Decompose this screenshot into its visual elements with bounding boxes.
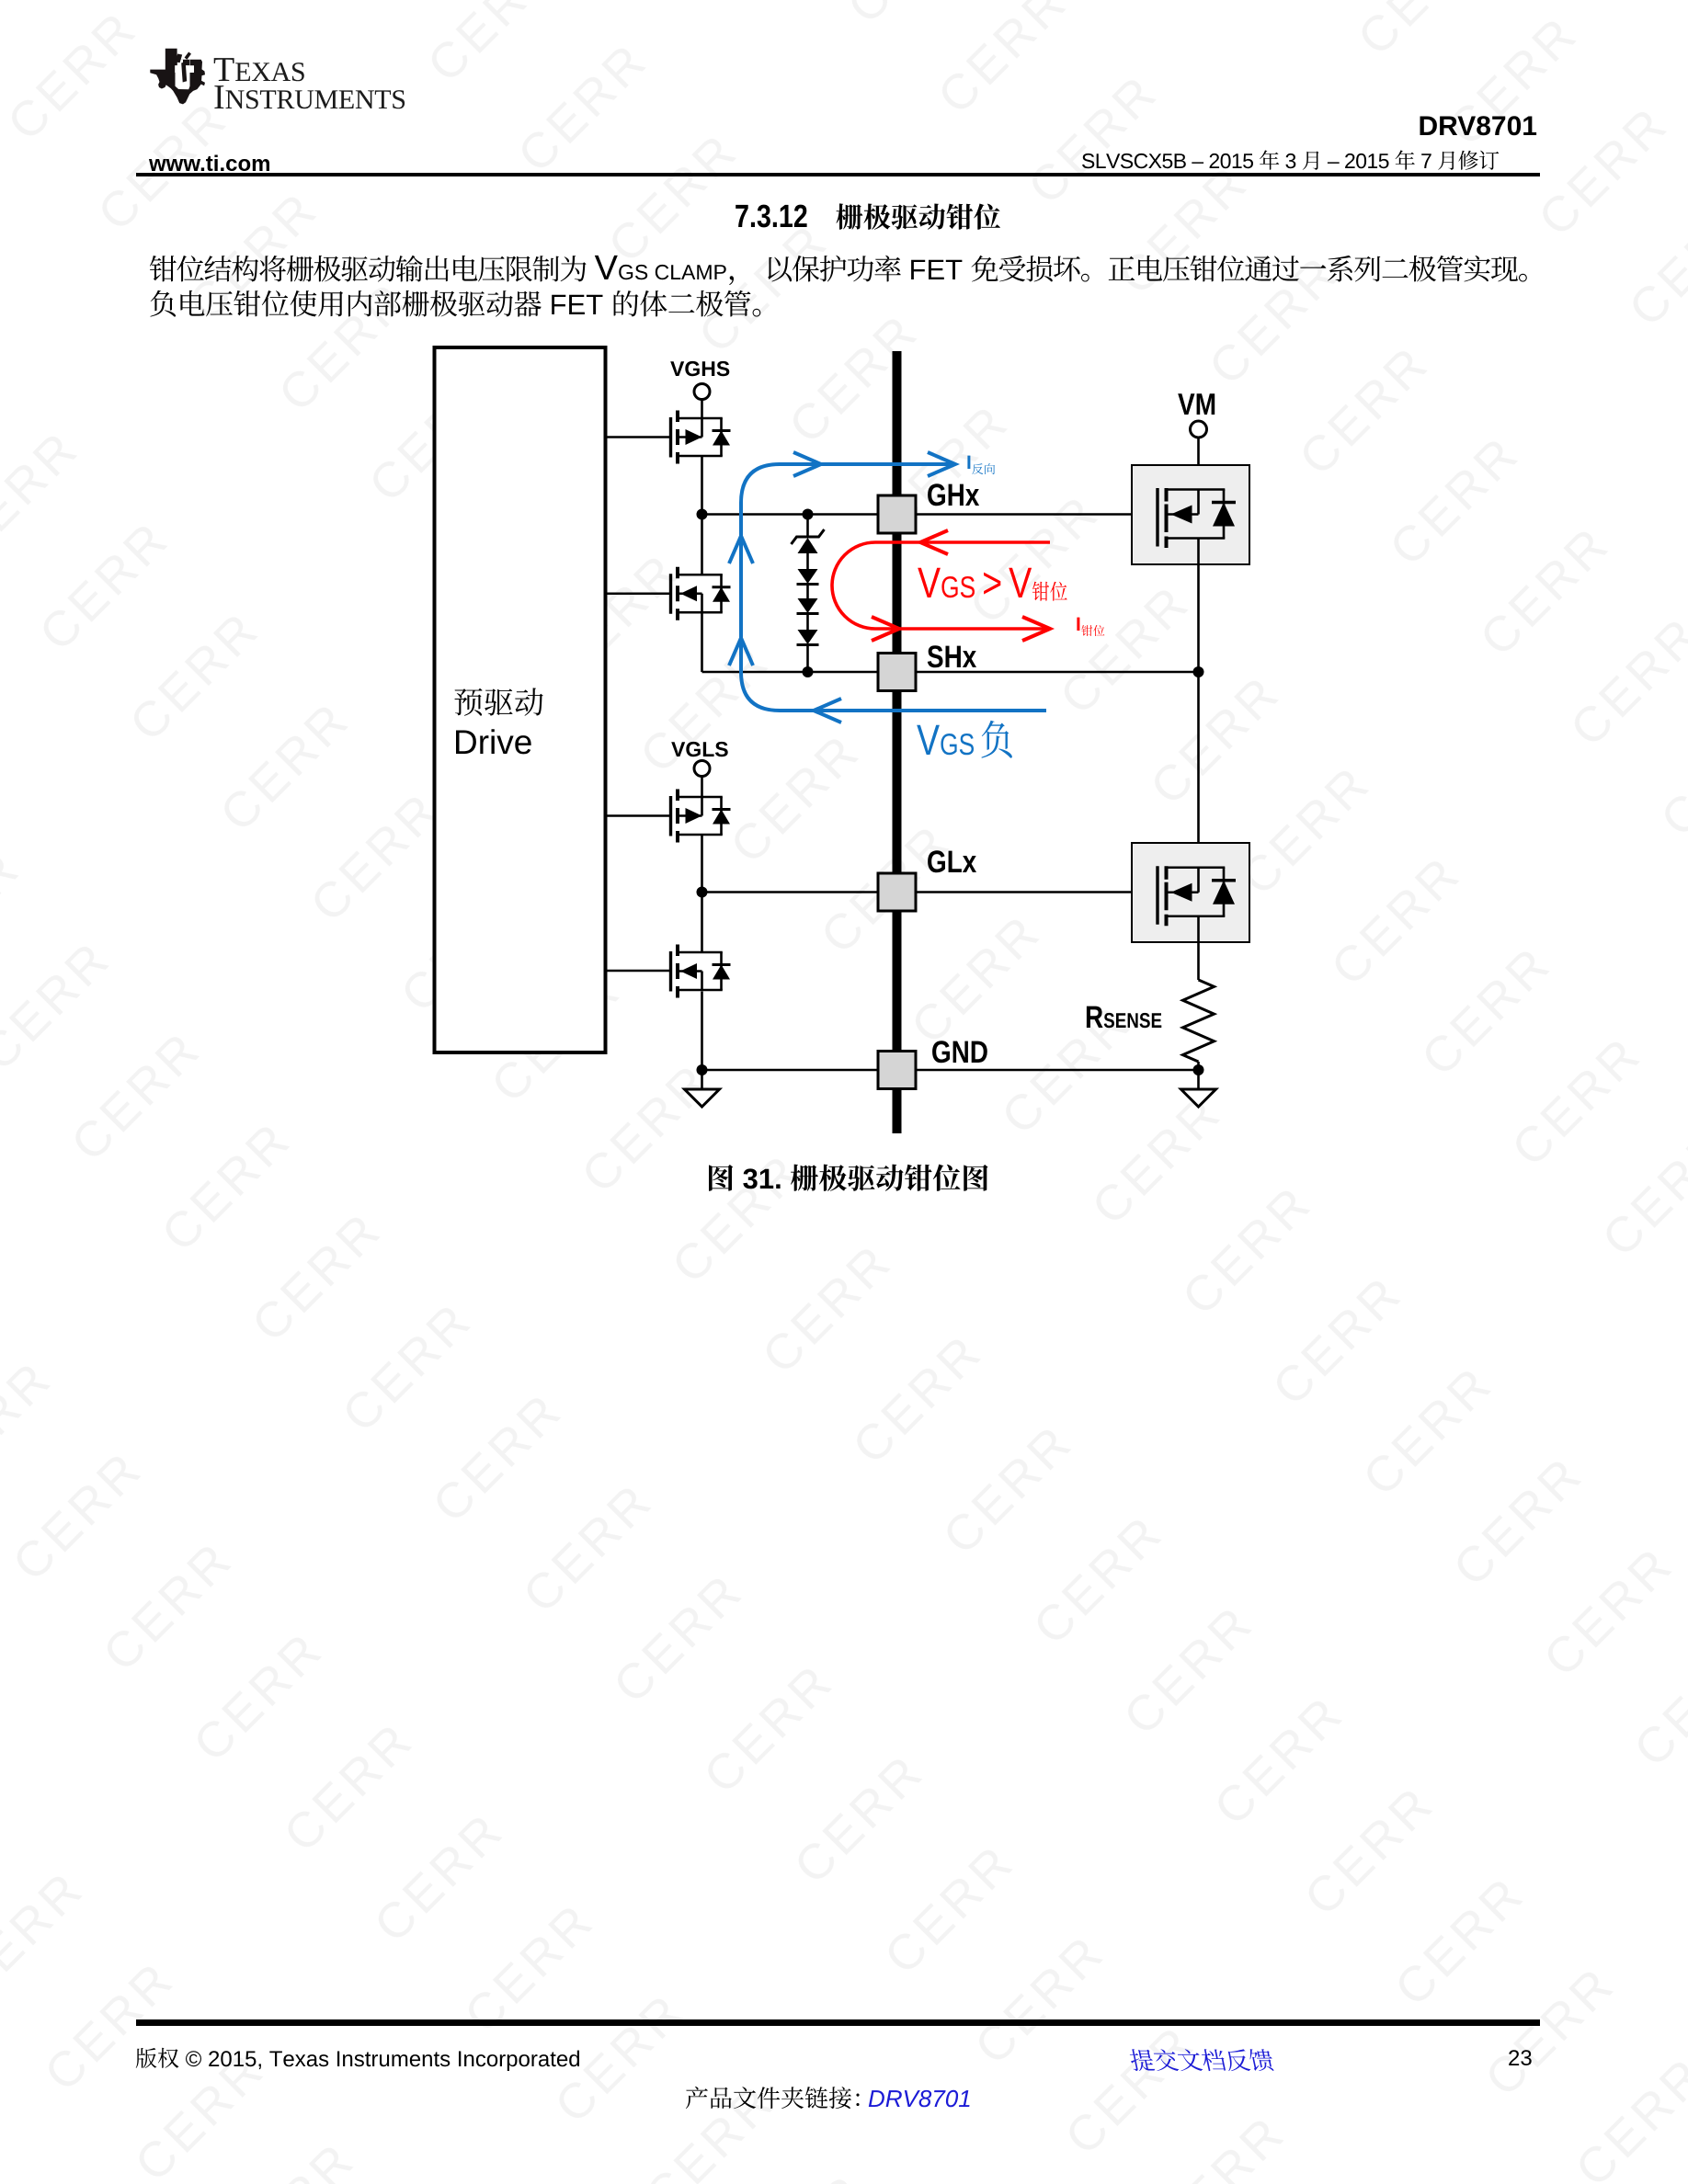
footer rule <box>136 2019 1540 2026</box>
wire gate FET2 <box>606 592 669 595</box>
zener diode D1 (clamp) <box>806 515 809 538</box>
pre-driver block 预驱动 Drive <box>435 347 606 1052</box>
header date line <box>1072 113 1526 187</box>
node diode chain bottom <box>803 666 814 677</box>
page number <box>1508 2046 1533 2072</box>
diode D3 <box>798 598 818 613</box>
Texas Instruments logo <box>0 0 276 138</box>
red current path V_GS > V_clamp <box>832 542 1050 629</box>
label V_GS > V_clamp <box>918 568 1066 601</box>
wire Q2 source down to SHx <box>701 614 703 673</box>
TEXAS INSTRUMENTS wordmark <box>204 26 333 99</box>
DRV8701 title <box>1409 111 1537 142</box>
footer feedback link <box>1123 2014 1303 2087</box>
footer product link label <box>676 2052 904 2125</box>
pad GLx <box>878 873 916 911</box>
VGLS terminal <box>694 761 710 777</box>
wire GHx node to Q2 drain <box>701 515 703 574</box>
footer copyright <box>126 2011 608 2085</box>
pad SHx <box>878 654 916 691</box>
wire gate FET4 <box>606 970 669 973</box>
label GND <box>932 1041 987 1063</box>
wire Q4 source to GND <box>701 992 703 1071</box>
ground symbol right <box>1197 1070 1200 1089</box>
node SHx right junction <box>1193 666 1204 677</box>
label V_GS negative <box>917 721 1012 758</box>
body line 1 <box>140 224 1572 298</box>
label I reverse <box>967 456 995 474</box>
wire M1 source to SHx <box>1197 539 1200 673</box>
VGHS terminal <box>694 384 710 400</box>
figure caption 图31 <box>697 1133 1017 1207</box>
wire SHx to M2 drain <box>1197 672 1200 868</box>
label GLx <box>928 850 976 872</box>
label GHx <box>928 483 979 506</box>
transistor Q3 (VGLS source FET) <box>669 796 672 836</box>
resistor RSENSE <box>1183 980 1215 1062</box>
wire SHx <box>702 671 877 674</box>
wire GHx <box>702 513 877 516</box>
wire Q3 source to GLx node <box>701 835 703 893</box>
www.ti.com <box>149 152 270 177</box>
node diode chain top <box>803 509 814 520</box>
diode D4 <box>798 630 818 644</box>
transistor Q2 (GHx pulldown FET) <box>669 574 672 614</box>
label I clamp <box>1077 618 1104 636</box>
section heading 7.3.12 <box>725 172 1028 245</box>
transistor Q1 (VGHS source FET) <box>669 417 672 458</box>
body line 2 <box>140 259 806 333</box>
blue current path V_GS negative <box>741 464 1046 711</box>
device pin bus bar <box>893 351 902 1133</box>
pad GND <box>878 1052 916 1089</box>
power MOSFET M2 (low side) <box>1132 843 1249 942</box>
wire GLx node to Q4 drain <box>701 893 703 952</box>
wire GLx <box>702 891 877 893</box>
node GLx junction <box>697 887 708 898</box>
diode D2 <box>798 569 818 584</box>
wire GND <box>697 1064 708 1075</box>
wire Q1 source to GHx node <box>701 457 703 515</box>
ground symbol left <box>701 1070 703 1089</box>
label RSENSE <box>1087 1007 1161 1029</box>
wire M2 source to RSENSE <box>1197 916 1200 980</box>
VM terminal <box>1191 421 1207 438</box>
node GHx junction <box>697 509 708 520</box>
transistor Q4 (GLx pulldown FET) <box>669 951 672 992</box>
header rule <box>136 173 1540 176</box>
power MOSFET M1 (high side) <box>1132 465 1249 564</box>
label SHx <box>928 645 976 667</box>
wire gate VGLS FET3 <box>606 814 669 817</box>
wire gate VGHS high FET <box>606 436 669 438</box>
footer product link DRV8701 <box>859 2052 998 2125</box>
pad GHx <box>878 495 916 533</box>
